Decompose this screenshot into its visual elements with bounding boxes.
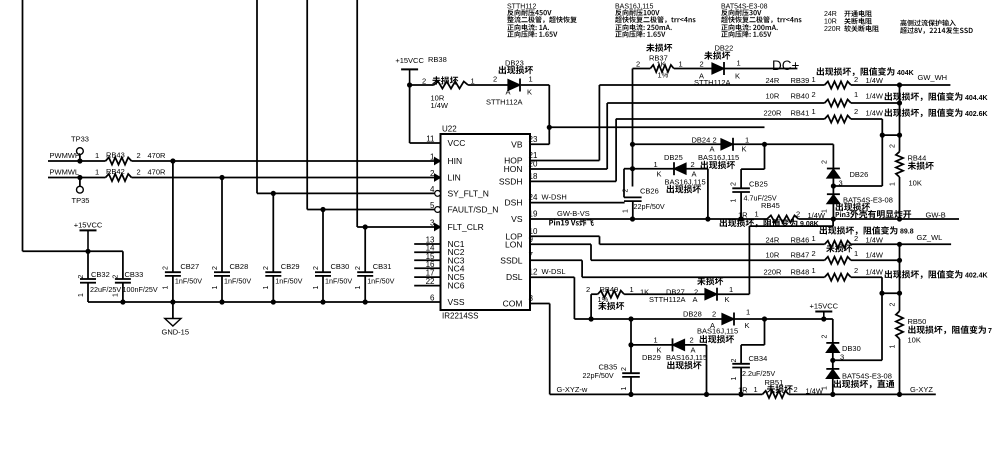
svg-text:BAS16J,115: BAS16J,115 — [666, 353, 707, 362]
svg-text:HIN: HIN — [448, 156, 463, 166]
svg-text:1: 1 — [355, 285, 362, 289]
svg-text:404.4K: 404.4K — [965, 95, 988, 102]
svg-text:2: 2 — [889, 144, 896, 148]
svg-text:RB48: RB48 — [791, 267, 810, 276]
wire DSL row — [574, 318, 722, 320]
svg-text:BAT54S-E3-08: BAT54S-E3-08 — [843, 196, 893, 205]
svg-text:2: 2 — [854, 107, 858, 116]
svg-text:2: 2 — [422, 76, 426, 85]
svg-text:PWMWL: PWMWL — [50, 167, 80, 176]
svg-text:1: 1 — [889, 344, 896, 348]
svg-text:2: 2 — [796, 209, 800, 218]
junction LIN/CB28 — [219, 175, 224, 180]
resistor RB37 1K — [646, 44, 672, 52]
svg-text:1nF/50V: 1nF/50V — [175, 276, 202, 285]
svg-text:K: K — [735, 71, 740, 80]
svg-text:1/4W: 1/4W — [866, 108, 884, 117]
svg-text:19: 19 — [529, 210, 538, 219]
svg-text:BAS16J,115: BAS16J,115 — [697, 326, 738, 335]
svg-text:1: 1 — [812, 107, 816, 116]
wire RB37 drop — [632, 69, 634, 169]
wire HOP — [530, 160, 599, 162]
svg-text:CB30: CB30 — [331, 262, 350, 271]
wire bootstrap top — [549, 126, 764, 128]
junction FAULT/CB30 — [320, 207, 325, 212]
svg-text:SY_FLT_N: SY_FLT_N — [448, 188, 489, 198]
diode DB26 BAT54S — [832, 144, 834, 168]
svg-text:470R: 470R — [148, 167, 167, 176]
wire gate node GW_WH — [899, 85, 901, 135]
svg-text:1nF/50V: 1nF/50V — [325, 276, 352, 285]
svg-text:+15VCC: +15VCC — [395, 56, 424, 65]
svg-text:GW-B-VS: GW-B-VS — [557, 209, 590, 218]
svg-text:2: 2 — [493, 75, 497, 84]
svg-text:7: 7 — [988, 328, 992, 335]
note high-side overcurrent — [900, 20, 955, 27]
wire DB25 to VS — [707, 169, 709, 219]
svg-text:DB26: DB26 — [850, 170, 869, 179]
ground rail GND-15 — [88, 301, 441, 303]
svg-text:BAS16J,115: BAS16J,115 — [665, 177, 706, 186]
svg-text:2: 2 — [263, 266, 270, 270]
svg-text:24R: 24R — [824, 11, 837, 18]
svg-text:1nF/50V: 1nF/50V — [224, 276, 251, 285]
svg-text:VS: VS — [511, 214, 523, 224]
svg-text:DB22: DB22 — [715, 43, 734, 52]
svg-text:K: K — [745, 321, 750, 330]
svg-text:2: 2 — [821, 160, 828, 164]
wire COM — [530, 303, 550, 305]
svg-text:1%: 1% — [598, 295, 609, 304]
wire SSDH — [530, 180, 616, 182]
svg-text:DSH: DSH — [505, 198, 523, 208]
svg-text:1: 1 — [737, 58, 741, 67]
svg-text:2: 2 — [586, 285, 590, 294]
svg-text:HON: HON — [504, 164, 523, 174]
svg-text:STTH112A: STTH112A — [649, 295, 686, 304]
svg-text:RB40: RB40 — [791, 92, 810, 101]
svg-text:RB39: RB39 — [791, 76, 810, 85]
wire DB23 to VB node — [548, 85, 550, 144]
svg-text:402.4K: 402.4K — [965, 273, 988, 280]
svg-text:1%: 1% — [658, 70, 669, 79]
svg-text:1: 1 — [313, 285, 320, 289]
capacitor CB32 22uF/25V — [87, 251, 89, 279]
svg-text:1: 1 — [889, 182, 896, 186]
svg-text:24: 24 — [529, 193, 538, 202]
svg-text:1/4W: 1/4W — [866, 250, 884, 259]
svg-text:1: 1 — [731, 198, 738, 202]
svg-text:2: 2 — [355, 266, 362, 270]
svg-text:1: 1 — [212, 285, 219, 289]
svg-text:2.2uF/25V: 2.2uF/25V — [742, 369, 775, 378]
pin bubbles SY_FLT FAULT — [435, 191, 441, 197]
op-amp U22 IR2214SS box — [441, 134, 531, 310]
svg-text:1K: 1K — [640, 288, 649, 297]
resistor RB44 10K — [899, 135, 901, 152]
svg-text:1: 1 — [821, 209, 828, 213]
svg-text:CB25: CB25 — [749, 180, 768, 189]
svg-text:470R: 470R — [148, 151, 167, 160]
rail G-XYZ — [550, 393, 763, 395]
wire RB48 to gate node — [881, 277, 883, 293]
wire VCC — [409, 85, 411, 143]
ground symbol GND-15 — [172, 302, 174, 319]
pin arrows HIN LIN FLT_CLR — [435, 158, 441, 165]
svg-text:2: 2 — [163, 266, 170, 270]
junction SY_FLT/CB29 — [271, 191, 276, 196]
diode DB29 BAS16J — [631, 344, 673, 346]
svg-text:CB29: CB29 — [281, 262, 300, 271]
junction FLT_CLR/CB31 — [363, 224, 368, 229]
wire RB41 to gate node — [881, 119, 883, 135]
svg-text:DB28: DB28 — [683, 310, 702, 319]
svg-text:2: 2 — [137, 167, 141, 176]
svg-text:2: 2 — [690, 336, 694, 345]
note RB46 damage — [820, 226, 898, 235]
svg-text:1: 1 — [95, 167, 99, 176]
svg-text:VCC: VCC — [448, 138, 466, 148]
wire RB49 drop — [590, 294, 592, 319]
svg-text:NC6: NC6 — [448, 281, 465, 291]
svg-text:DB25: DB25 — [664, 153, 683, 162]
svg-text:1: 1 — [854, 249, 858, 258]
wire VS GW-B — [530, 218, 767, 220]
svg-text:1: 1 — [623, 209, 630, 213]
svg-text:22pF/50V: 22pF/50V — [634, 202, 665, 211]
wire gate node GZ_WL — [899, 244, 901, 293]
svg-text:W-DSH: W-DSH — [542, 193, 567, 202]
svg-text:W-DSL: W-DSL — [542, 267, 566, 276]
svg-text:22uF/25V: 22uF/25V — [90, 285, 121, 294]
svg-text:2: 2 — [889, 302, 896, 306]
wire SSDL — [530, 259, 582, 261]
svg-text:2: 2 — [113, 275, 120, 279]
svg-text:100nF/25V: 100nF/25V — [123, 285, 158, 294]
svg-text:RB38: RB38 — [428, 55, 447, 64]
svg-text:GZ_WL: GZ_WL — [917, 233, 943, 242]
svg-text:1: 1 — [746, 308, 750, 317]
svg-text:1: 1 — [731, 376, 738, 380]
capacitor CB26 22pF/50V — [632, 169, 634, 187]
svg-text:1: 1 — [812, 266, 816, 275]
svg-text:IR2214SS: IR2214SS — [442, 312, 478, 321]
svg-text:CB32: CB32 — [91, 270, 110, 279]
capacitor CB28 1nF/50V — [221, 178, 223, 273]
svg-text:1: 1 — [630, 285, 634, 294]
svg-text:18: 18 — [529, 172, 538, 181]
svg-text:10R: 10R — [766, 92, 780, 101]
svg-text:2: 2 — [137, 151, 141, 160]
svg-text:PWMWH: PWMWH — [50, 151, 81, 160]
svg-text:DSL: DSL — [506, 272, 523, 282]
svg-text:6: 6 — [430, 294, 435, 303]
svg-text:2: 2 — [731, 182, 738, 186]
svg-text:24R: 24R — [766, 235, 780, 244]
svg-text:23: 23 — [529, 135, 538, 144]
svg-text:1: 1 — [471, 76, 475, 85]
junction HIN/CB27 — [170, 158, 175, 163]
svg-text:+15VCC: +15VCC — [810, 302, 839, 311]
svg-text:12: 12 — [529, 268, 538, 277]
left border wire — [22, 0, 24, 251]
capacitor CB34 2.2uF/25V — [764, 319, 766, 345]
svg-text:1: 1 — [113, 293, 120, 297]
svg-text:K: K — [657, 170, 662, 179]
svg-text:A: A — [693, 295, 698, 304]
svg-text:1/4W: 1/4W — [866, 76, 884, 85]
svg-text:1: 1 — [812, 75, 816, 84]
svg-text:K: K — [725, 295, 730, 304]
svg-text:1: 1 — [754, 385, 758, 394]
svg-text:8: 8 — [529, 294, 534, 303]
svg-text:220R: 220R — [764, 267, 783, 276]
svg-text:2: 2 — [313, 266, 320, 270]
svg-text:220R: 220R — [824, 26, 841, 33]
svg-text:2: 2 — [821, 334, 828, 338]
svg-text:2: 2 — [854, 75, 858, 84]
svg-text:1: 1 — [263, 285, 270, 289]
capacitor CB25 4.7uF/25V — [764, 144, 766, 169]
wire DB29 to rail — [706, 345, 708, 395]
svg-text:CB35: CB35 — [599, 362, 618, 371]
svg-text:G-XYZ-w: G-XYZ-w — [557, 385, 588, 394]
svg-text:10R: 10R — [766, 250, 780, 259]
svg-text:1R: 1R — [738, 386, 748, 395]
svg-text:K: K — [742, 145, 747, 154]
svg-text:CB28: CB28 — [230, 262, 249, 271]
svg-text:LIN: LIN — [448, 173, 461, 183]
svg-text:RB46: RB46 — [791, 235, 810, 244]
note RB48 damage — [885, 270, 963, 279]
svg-text:7: 7 — [529, 251, 534, 260]
svg-text:COM: COM — [503, 299, 523, 309]
svg-text:SSDH: SSDH — [499, 176, 523, 186]
diode DB30 BAT54S — [832, 319, 834, 343]
svg-text:U22: U22 — [442, 125, 457, 134]
capacitor CB29 1nF/50V — [272, 193, 274, 272]
svg-text:GW-B: GW-B — [926, 210, 946, 219]
svg-text:1: 1 — [745, 135, 749, 144]
svg-text:1: 1 — [729, 285, 733, 294]
svg-text:1: 1 — [163, 285, 170, 289]
svg-text:RB47: RB47 — [791, 250, 810, 259]
svg-text:2: 2 — [621, 367, 628, 371]
svg-text:2: 2 — [812, 249, 816, 258]
svg-text:2: 2 — [78, 275, 85, 279]
capacitor CB31 1nF/50V — [364, 227, 366, 272]
svg-text:1K: 1K — [657, 60, 666, 69]
svg-text:CB33: CB33 — [125, 270, 144, 279]
wire DB30 branch — [881, 293, 883, 360]
capacitor CB27 1nF/50V — [172, 161, 174, 272]
svg-text:DB24: DB24 — [692, 135, 711, 144]
svg-text:2: 2 — [794, 385, 798, 394]
svg-text:RB45: RB45 — [761, 201, 780, 210]
svg-text:STTH112A: STTH112A — [486, 98, 523, 107]
svg-text:10K: 10K — [909, 179, 922, 188]
svg-text:RB50: RB50 — [908, 317, 927, 326]
svg-text:GW_WH: GW_WH — [918, 73, 948, 82]
test point TP35 — [77, 175, 82, 180]
svg-text:1: 1 — [654, 336, 658, 345]
svg-text:A: A — [506, 87, 511, 96]
wire DB26 branch — [881, 135, 883, 186]
capacitor CB33 100nF/25V — [122, 251, 124, 279]
svg-text:CB31: CB31 — [373, 262, 392, 271]
svg-text:DB23: DB23 — [505, 58, 524, 67]
wire FAULT/SD_N from top — [306, 0, 308, 210]
svg-text:FAULT/SD_N: FAULT/SD_N — [448, 205, 499, 215]
svg-text:DB30: DB30 — [842, 344, 861, 353]
svg-text:89.8: 89.8 — [900, 229, 914, 236]
note RB45 damage — [720, 219, 798, 228]
wire FLT_CLR from top — [356, 0, 358, 227]
svg-text:1: 1 — [529, 75, 533, 84]
wire LON — [530, 243, 591, 245]
svg-text:2: 2 — [700, 59, 704, 68]
svg-text:1: 1 — [812, 234, 816, 243]
wire +15VCC feed — [23, 250, 123, 252]
svg-text:K: K — [527, 87, 532, 96]
svg-text:2: 2 — [854, 234, 858, 243]
svg-text:1nF/50V: 1nF/50V — [367, 276, 394, 285]
svg-text:LON: LON — [505, 239, 522, 249]
svg-text:9.08K: 9.08K — [800, 221, 819, 228]
note Pin19 — [549, 219, 594, 226]
svg-text:1/4W: 1/4W — [866, 267, 884, 276]
wire DB29 branch — [628, 316, 633, 321]
svg-text:1/4W: 1/4W — [431, 101, 449, 110]
svg-text:GND-15: GND-15 — [162, 328, 190, 337]
note RB39 damage — [817, 67, 895, 76]
svg-text:1: 1 — [755, 209, 759, 218]
svg-text:2: 2 — [636, 59, 640, 68]
note DB30 damage — [834, 380, 895, 389]
svg-text:BAS16J,115: BAS16J,115 — [698, 153, 739, 162]
resistor RB50 10K — [899, 293, 901, 311]
svg-text:2: 2 — [691, 160, 695, 169]
svg-text:TP33: TP33 — [71, 135, 89, 144]
note RB40 damage — [885, 92, 963, 101]
svg-text:3: 3 — [840, 353, 844, 362]
svg-text:DC+: DC+ — [772, 58, 799, 73]
svg-text:1: 1 — [854, 90, 858, 99]
wire HON — [530, 168, 607, 170]
svg-text:2: 2 — [712, 310, 716, 319]
diode DB25 BAS16J — [630, 166, 635, 171]
svg-text:1: 1 — [95, 151, 99, 160]
note RB41 damage — [885, 108, 963, 117]
svg-text:220R: 220R — [764, 108, 783, 117]
svg-text:VB: VB — [511, 139, 523, 149]
svg-text:RB44: RB44 — [908, 154, 927, 163]
svg-text:+15VCC: +15VCC — [74, 221, 103, 230]
svg-text:10R: 10R — [824, 19, 837, 26]
capacitor CB35 22pF/50V — [630, 345, 632, 373]
svg-text:10K: 10K — [908, 336, 921, 345]
svg-text:1/4W: 1/4W — [866, 92, 884, 101]
capacitor CB30 1nF/50V — [322, 210, 324, 273]
svg-text:402.6K: 402.6K — [965, 111, 988, 118]
wire DB27 feedback — [748, 226, 750, 294]
svg-text:2: 2 — [212, 266, 219, 270]
wire LOP — [530, 235, 600, 237]
svg-text:1: 1 — [654, 160, 658, 169]
svg-text:3: 3 — [839, 179, 843, 188]
wire SY_FLT_N from top — [256, 0, 258, 193]
svg-text:BAT54S-E3-08: BAT54S-E3-08 — [842, 372, 892, 381]
svg-text:CB26: CB26 — [640, 186, 659, 195]
note DB26 damage — [836, 203, 870, 211]
svg-text:CB27: CB27 — [180, 262, 199, 271]
svg-text:1: 1 — [621, 386, 628, 390]
svg-text:FLT_CLR: FLT_CLR — [448, 222, 484, 232]
svg-text:2: 2 — [713, 135, 717, 144]
svg-text:2: 2 — [623, 188, 630, 192]
svg-text:1nF/50V: 1nF/50V — [275, 276, 302, 285]
svg-text:24R: 24R — [766, 76, 780, 85]
svg-text:1R: 1R — [738, 210, 748, 219]
svg-text:G-XYZ: G-XYZ — [910, 385, 933, 394]
svg-text:DB29: DB29 — [642, 353, 661, 362]
svg-text:TP35: TP35 — [72, 196, 90, 205]
diode DB24 BAS16J — [630, 142, 635, 147]
pins NC stubs — [414, 243, 440, 245]
svg-text:1/4W: 1/4W — [866, 235, 884, 244]
svg-text:SSDL: SSDL — [500, 255, 522, 265]
svg-text:22pF/50V: 22pF/50V — [583, 371, 614, 380]
svg-text:1: 1 — [679, 59, 683, 68]
svg-text:1: 1 — [78, 293, 85, 297]
svg-text:2: 2 — [731, 358, 738, 362]
svg-text:VSS: VSS — [448, 297, 465, 307]
svg-text:CB34: CB34 — [749, 354, 768, 363]
svg-text:2: 2 — [854, 266, 858, 275]
svg-text:RB41: RB41 — [791, 108, 810, 117]
svg-text:404K: 404K — [897, 70, 914, 77]
svg-text:2: 2 — [812, 90, 816, 99]
wire VB stub — [530, 143, 549, 145]
